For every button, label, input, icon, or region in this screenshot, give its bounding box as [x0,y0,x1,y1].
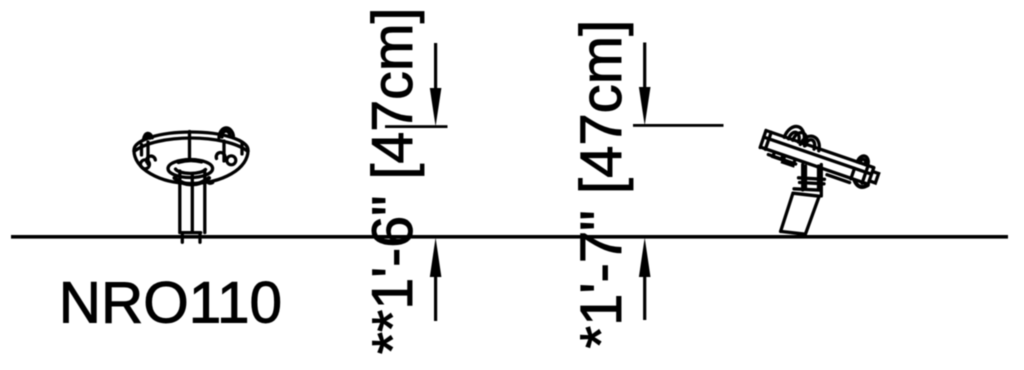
svg-text:*1'-7" [47cm]: *1'-7" [47cm] [569,20,634,349]
svg-text:NRO110: NRO110 [59,271,282,336]
svg-text:**1'-6" [47cm]: **1'-6" [47cm] [361,7,425,354]
